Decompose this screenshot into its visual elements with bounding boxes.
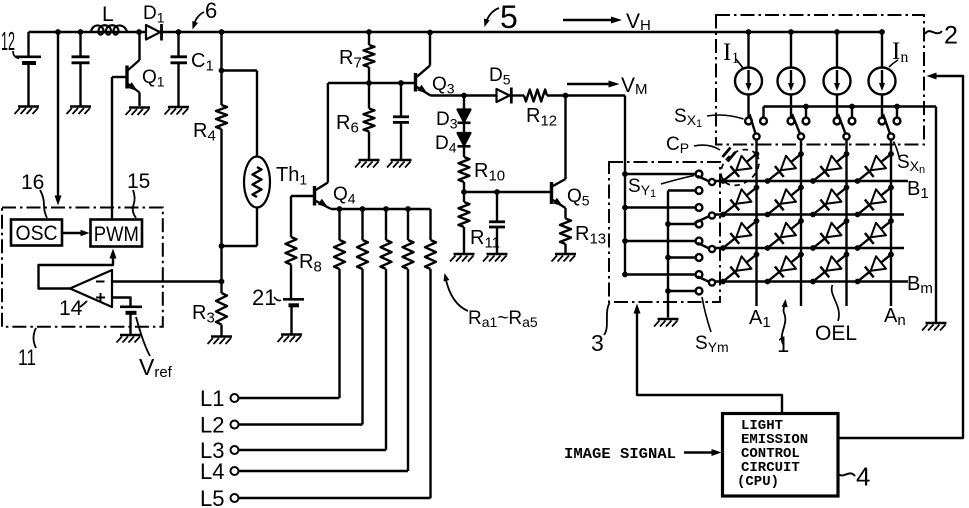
- wire VM feeds to Sy upper contacts: [622, 171, 695, 277]
- svg-text:6: 6: [205, 0, 217, 23]
- svg-text:OSC: OSC: [16, 222, 58, 245]
- label R11: [470, 227, 500, 252]
- label VH: [626, 10, 651, 34]
- switch Sx column 1: [745, 107, 767, 145]
- label 1 with squiggle arrow: [777, 299, 789, 357]
- svg-text:2: 2: [944, 22, 958, 50]
- wire matrix column A4: [890, 145, 892, 307]
- OEL diode row3 col2: [765, 218, 804, 251]
- current source I1: [735, 29, 762, 117]
- wire CPU feedback to current source block with arrow: [838, 73, 963, 439]
- wire top supply rail node 6: [29, 31, 883, 33]
- label Q1: [142, 67, 165, 90]
- ground under R6: [355, 160, 380, 168]
- current source I2: [778, 29, 805, 117]
- label 4 with leader: [838, 462, 870, 492]
- label R12: [526, 105, 557, 130]
- label R8: [299, 251, 322, 276]
- wire op-amp output feedback to PWM: [39, 249, 117, 289]
- label D5: [489, 65, 511, 88]
- arrow OSC to PWM: [62, 230, 90, 236]
- label Sxn: [894, 142, 926, 177]
- resistor R11: [459, 192, 470, 253]
- OEL diode row3 col4: [855, 218, 894, 251]
- label Bm: [907, 273, 933, 297]
- ground under R13: [552, 254, 577, 262]
- ground under R3: [208, 337, 233, 345]
- wire R10 bottom to Q5 base: [461, 189, 550, 195]
- resistor Ra4: [403, 209, 414, 269]
- capacitor input filter: [72, 29, 90, 105]
- dash-dot box 11: [2, 208, 163, 327]
- wire Q3 base rail: [328, 80, 414, 86]
- switch Sy row 1: [696, 171, 717, 194]
- svg-text:11: 11: [18, 345, 36, 370]
- label L1: [200, 386, 224, 411]
- wire Q3 emitter to VM node: [431, 93, 569, 99]
- ground under Q1 emitter: [126, 108, 151, 116]
- thermistor Th1: [219, 157, 270, 249]
- resistor R10: [459, 157, 470, 192]
- terminal L3: [231, 446, 239, 454]
- terminal L5: [231, 494, 239, 502]
- OEL diode row1 col3: [810, 151, 849, 184]
- battery Vref: [120, 307, 142, 335]
- resistor R6: [364, 83, 375, 159]
- label 15: [127, 170, 150, 218]
- switch Sx column 4: [879, 107, 901, 145]
- resistor Ra1: [334, 209, 345, 269]
- label L2: [200, 413, 224, 438]
- switch Sx column 2: [788, 107, 810, 145]
- label 21: [252, 285, 281, 310]
- svg-text:(CPU): (CPU): [737, 474, 779, 490]
- label Q3: [432, 74, 455, 97]
- label L5: [200, 486, 224, 508]
- dash-dot box 2 current source block: [716, 15, 924, 145]
- svg-text:L5: L5: [200, 486, 224, 508]
- label R4: [193, 120, 216, 145]
- label R13: [575, 223, 606, 248]
- label 14: [59, 297, 87, 320]
- label OEL with leader: [815, 285, 857, 345]
- label R10: [474, 160, 505, 185]
- OEL diode row4 col3: [810, 252, 849, 285]
- wire Q4 emitter bus: [331, 206, 431, 212]
- OEL diode row2 col4: [855, 185, 894, 218]
- label 16: [21, 171, 47, 218]
- label R7: [339, 47, 362, 72]
- svg-text:5: 5: [500, 0, 518, 35]
- resistor R7: [364, 29, 375, 83]
- current source I3: [824, 29, 851, 117]
- wire Ra1 to terminal L1: [239, 269, 340, 398]
- label 11: [18, 328, 36, 370]
- OEL diode row2 col2: [765, 185, 804, 218]
- ground under box 3: [654, 319, 679, 327]
- capacitor at Q3 base: [393, 83, 409, 159]
- svg-text:4: 4: [856, 462, 870, 492]
- wire ground line to Sy lower contacts: [665, 191, 695, 318]
- label Sy1: [628, 176, 694, 201]
- ground under input filter cap: [67, 107, 92, 115]
- transistor Q5: [552, 96, 566, 219]
- diode D1: [143, 3, 165, 41]
- dash-dot box 3 row switch block: [609, 162, 720, 302]
- current source I4: [869, 29, 896, 117]
- terminal L1: [231, 394, 239, 402]
- OEL diode row4 col1: [720, 252, 759, 285]
- arrow VH: [563, 17, 622, 24]
- arrow image signal into CPU: [684, 449, 722, 456]
- switch Sy row 3: [696, 238, 717, 261]
- wire matrix column A3: [845, 145, 847, 307]
- label Q4: [333, 184, 356, 207]
- resistor R8: [286, 237, 297, 299]
- label IMAGE SIGNAL: [564, 446, 676, 463]
- label Th1: [276, 164, 307, 188]
- dashed ellipse around OEL element for Cp: [714, 142, 766, 193]
- label Vref: [136, 317, 173, 381]
- OEL diode row4 col4: [855, 252, 894, 285]
- terminal L4: [231, 467, 239, 475]
- resistor Ra3: [381, 209, 392, 269]
- OEL diode row1 col4: [855, 151, 894, 184]
- wire Q4 base to R8: [291, 196, 315, 237]
- capacitor at Q5 base: [489, 192, 505, 253]
- label B1: [907, 178, 929, 202]
- terminal L2: [231, 421, 239, 429]
- ground under C1: [165, 107, 190, 115]
- wire Ra3 to terminal L3: [239, 269, 387, 450]
- label I1: [723, 39, 743, 68]
- switch Sx column 3: [834, 107, 856, 145]
- op-amp U14 error amplifier: [70, 270, 112, 307]
- transistor Q3: [416, 30, 433, 96]
- label L4: [200, 459, 224, 484]
- wire Ra2 to terminal L2: [239, 269, 363, 425]
- ground under battery 21: [278, 335, 303, 343]
- diode D3: [458, 96, 471, 134]
- wire matrix row B3: [716, 247, 905, 249]
- wire matrix row B1: [716, 180, 909, 182]
- svg-text:PWM: PWM: [94, 223, 139, 246]
- label 2 with leader: [925, 22, 958, 50]
- switch Sy row 2: [695, 204, 717, 227]
- node R4 top junction to thermistor: [219, 68, 257, 157]
- resistor Ra5: [425, 209, 436, 269]
- OEL diode row3 col3: [810, 218, 849, 251]
- OEL diode row2 col1: [720, 185, 759, 218]
- OEL diode row4 col2: [765, 252, 804, 285]
- svg-text:14: 14: [59, 297, 83, 320]
- block 4 light emission control circuit: [723, 414, 839, 497]
- label Q5: [567, 186, 590, 209]
- label Ra1-Ra5: [444, 273, 538, 330]
- wire matrix column A2: [800, 145, 802, 307]
- ground under Q3 base capacitor: [387, 160, 412, 168]
- OEL diode row1 col2: [765, 151, 804, 184]
- label A1: [749, 307, 771, 331]
- label 12: [1, 26, 19, 59]
- wire Ra5 to terminal L5: [239, 269, 431, 498]
- svg-text:OEL: OEL: [815, 322, 857, 345]
- wire Ra4 to terminal L4: [239, 269, 409, 471]
- label C1: [191, 50, 214, 75]
- wire matrix row B2: [716, 213, 905, 215]
- label An: [884, 305, 906, 329]
- wire matrix row B4: [716, 280, 909, 282]
- OEL diode row2 col3: [810, 185, 849, 218]
- wire CPU to row switch block with arrow: [634, 304, 783, 414]
- diode D4: [458, 133, 471, 157]
- svg-text:3: 3: [591, 330, 604, 356]
- transistor Q1: [112, 29, 142, 218]
- label Sx1: [674, 106, 744, 130]
- ground under Vref: [117, 335, 142, 343]
- label In: [889, 38, 908, 67]
- label 3 with leader: [591, 303, 610, 356]
- svg-text:15: 15: [127, 170, 150, 193]
- resistor R12: [524, 90, 547, 102]
- resistor R4: [216, 105, 227, 246]
- switch Sy row 4: [696, 271, 717, 294]
- label Cp with leader: [666, 134, 720, 156]
- svg-text:L1: L1: [200, 386, 224, 411]
- svg-text:L: L: [102, 3, 114, 26]
- wire divider node to op-amp minus input: [112, 279, 224, 285]
- label R6: [336, 112, 359, 137]
- label D3: [436, 109, 458, 132]
- svg-text:L2: L2: [200, 413, 224, 438]
- resistor R3: [216, 246, 227, 336]
- label Sym: [695, 297, 729, 355]
- diode D5: [497, 88, 512, 104]
- ground under Sx bus: [922, 323, 947, 331]
- OEL diode row1 col1: [720, 151, 759, 184]
- label 5 with arrow to rail: [484, 0, 518, 35]
- inductor L: [91, 3, 127, 35]
- wire VM node to row switch feed: [566, 96, 626, 275]
- label D4: [435, 133, 457, 156]
- label L3: [200, 438, 224, 463]
- wire Sx common bus to ground: [764, 104, 937, 322]
- ground under R11: [450, 254, 475, 262]
- resistor R13: [560, 219, 571, 254]
- transistor Q4: [315, 83, 332, 209]
- svg-text:IMAGE SIGNAL: IMAGE SIGNAL: [564, 446, 676, 463]
- battery 12 (input supply): [16, 32, 42, 106]
- svg-text:1: 1: [777, 332, 789, 357]
- wire op-amp plus input to Vref: [112, 298, 131, 306]
- label 6 with arrow to rail: [192, 0, 217, 30]
- capacitor Cp plates: [723, 148, 736, 162]
- resistor Ra2: [357, 209, 368, 269]
- arrow VM: [567, 81, 620, 88]
- block OSC U16: [11, 220, 62, 246]
- label VM: [621, 74, 648, 98]
- capacitor C1: [171, 29, 188, 106]
- svg-text:L4: L4: [200, 459, 224, 484]
- battery 21: [283, 299, 304, 333]
- svg-text:21: 21: [252, 285, 276, 310]
- block PWM U15: [91, 220, 143, 247]
- ground under battery 12: [15, 107, 40, 115]
- ground under Q5 base capacitor: [483, 254, 508, 262]
- wire matrix column A1: [755, 145, 757, 307]
- label R3: [192, 302, 215, 327]
- wire node 6 down to R4: [219, 29, 225, 105]
- wire supply feed to OSC with arrow: [55, 29, 62, 205]
- OEL diode row3 col1: [720, 218, 759, 251]
